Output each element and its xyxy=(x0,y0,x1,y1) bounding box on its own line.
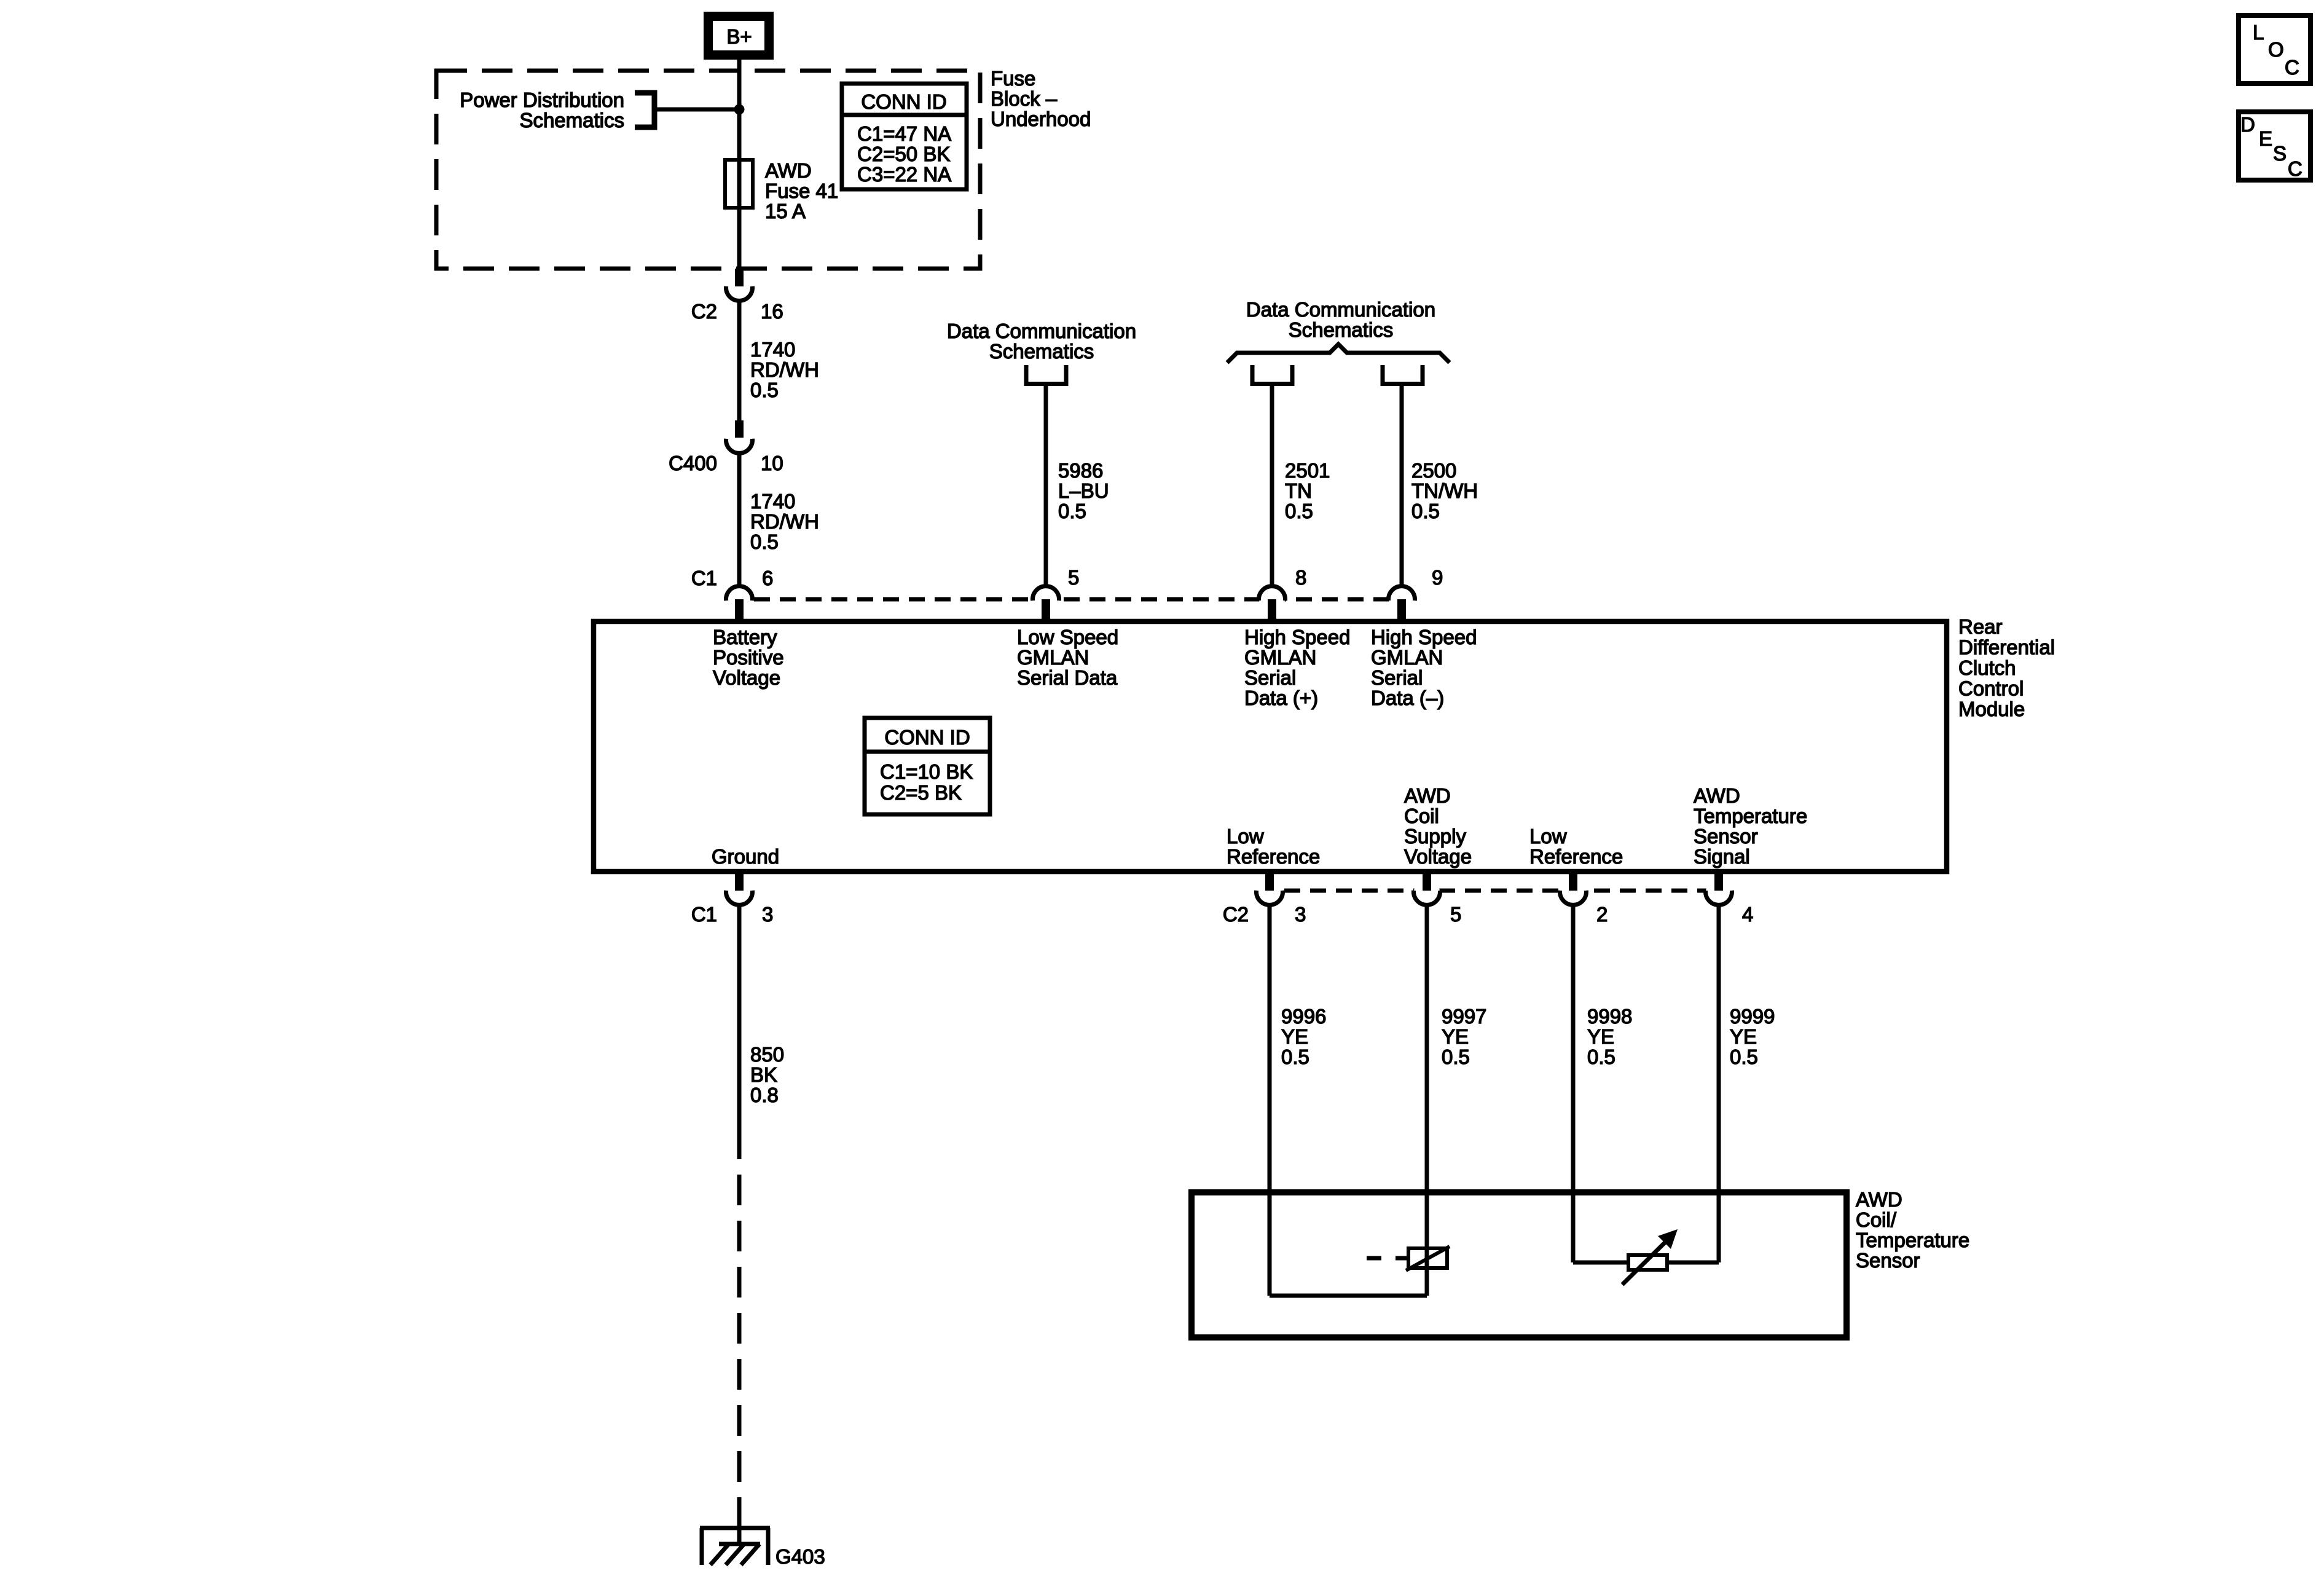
svg-text:CONN ID: CONN ID xyxy=(884,726,970,749)
wire 9999 YE 0.5 xyxy=(1719,904,1775,1262)
svg-text:High Speed: High Speed xyxy=(1371,626,1477,648)
AWD clutch coil (solenoid) xyxy=(1367,1246,1450,1270)
pin label: Low Speed GMLAN Serial Data xyxy=(1017,626,1118,689)
LOC page marker box xyxy=(2239,15,2310,84)
svg-text:BK: BK xyxy=(750,1063,777,1086)
svg-text:Fuse: Fuse xyxy=(991,67,1035,90)
svg-text:Schematics: Schematics xyxy=(989,340,1094,363)
wire 850 BK 0.8 to ground xyxy=(739,904,784,1544)
svg-text:Signal: Signal xyxy=(1694,845,1750,868)
svg-text:Sensor: Sensor xyxy=(1856,1249,1920,1272)
svg-text:C: C xyxy=(2285,56,2299,79)
pin label: High Speed GMLAN Serial Data (-) xyxy=(1371,626,1477,709)
wire coil return (9996 leg to coil) xyxy=(1270,1294,1427,1298)
svg-text:RD/WH: RD/WH xyxy=(750,510,819,533)
svg-text:B+: B+ xyxy=(726,25,752,48)
svg-text:9998: 9998 xyxy=(1587,1005,1632,1028)
svg-text:Rear: Rear xyxy=(1958,615,2003,638)
svg-text:Schematics: Schematics xyxy=(519,109,624,132)
svg-text:0.5: 0.5 xyxy=(1730,1045,1758,1068)
svg-text:8: 8 xyxy=(1295,566,1306,589)
brace over high speed GMLAN pair xyxy=(1227,344,1450,363)
svg-text:0.5: 0.5 xyxy=(1442,1045,1470,1068)
svg-text:C2=5 BK: C2=5 BK xyxy=(880,781,962,804)
DESC page marker box xyxy=(2239,112,2310,180)
svg-text:Sensor: Sensor xyxy=(1694,825,1758,848)
svg-text:AWD: AWD xyxy=(1856,1188,1902,1211)
wire 2501 TN 0.5 xyxy=(1272,386,1330,586)
svg-text:Fuse 41: Fuse 41 xyxy=(765,179,838,202)
svg-text:2500: 2500 xyxy=(1411,459,1456,482)
svg-text:Block –: Block – xyxy=(991,87,1058,110)
svg-text:C1=47 NA: C1=47 NA xyxy=(857,122,951,145)
svg-text:TN/WH: TN/WH xyxy=(1411,479,1478,502)
svg-text:Battery: Battery xyxy=(713,626,777,648)
svg-text:Ground: Ground xyxy=(712,845,779,868)
svg-text:10: 10 xyxy=(761,452,783,474)
svg-text:L–BU: L–BU xyxy=(1058,479,1109,502)
svg-text:16: 16 xyxy=(761,300,783,323)
wire 9996 YE 0.5 xyxy=(1270,904,1326,1296)
svg-text:D: D xyxy=(2240,113,2255,136)
svg-text:Data (+): Data (+) xyxy=(1244,687,1318,709)
pin label: Low Reference (C2-3) xyxy=(1227,825,1320,868)
label: AWD Fuse 41 15 A xyxy=(765,159,838,222)
svg-text:Differential: Differential xyxy=(1958,636,2055,659)
module pin C1-6 (battery positive voltage) xyxy=(691,567,774,623)
svg-text:5: 5 xyxy=(1450,903,1461,926)
in-line connector C2 pin 16 xyxy=(691,269,783,323)
svg-text:9: 9 xyxy=(1432,566,1443,589)
svg-text:C2=50 BK: C2=50 BK xyxy=(857,143,950,165)
svg-text:TN: TN xyxy=(1285,479,1312,502)
svg-text:9999: 9999 xyxy=(1730,1005,1775,1028)
svg-text:Module: Module xyxy=(1958,698,2025,720)
pin label: Battery Positive Voltage xyxy=(713,626,784,689)
svg-text:Supply: Supply xyxy=(1404,825,1466,848)
wire 1740 RD/WH 0.5 (C2-16 to C400-10) xyxy=(739,301,819,422)
label: Data Communication Schematics (high speed pair) xyxy=(1246,298,1435,341)
svg-text:AWD: AWD xyxy=(1404,784,1451,807)
svg-text:C1=10 BK: C1=10 BK xyxy=(880,760,973,783)
pin label: High Speed GMLAN Serial Data (+) xyxy=(1244,626,1350,709)
label: Fuse Block - Underhood xyxy=(991,67,1091,130)
svg-text:C1: C1 xyxy=(691,903,717,926)
module pin C2-2 (low reference) xyxy=(1560,872,1608,926)
svg-text:Clutch: Clutch xyxy=(1958,656,2016,679)
off-page connector (high speed GMLAN -) xyxy=(1383,365,1423,384)
module pin C2-3 (low reference) xyxy=(1223,872,1306,926)
svg-text:Power Distribution: Power Distribution xyxy=(460,89,624,111)
svg-text:Serial: Serial xyxy=(1244,666,1296,689)
junction node on B+ feed xyxy=(734,104,745,115)
bracket for Power Distribution Schematics reference xyxy=(635,93,654,127)
off-page connector (low speed GMLAN) xyxy=(1026,365,1066,384)
svg-text:Reference: Reference xyxy=(1227,845,1320,868)
wire 1740 RD/WH 0.5 (C400-10 to module C1-6) xyxy=(739,452,819,586)
battery positive node B+ xyxy=(704,12,774,60)
svg-text:5: 5 xyxy=(1068,566,1079,589)
fuse block underhood (dashed boundary) xyxy=(436,71,980,269)
svg-text:C3=22 NA: C3=22 NA xyxy=(857,163,951,186)
svg-text:YE: YE xyxy=(1587,1025,1614,1048)
wire 5986 L-BU 0.5 xyxy=(1046,386,1109,586)
module pin C2-5 (AWD coil supply voltage) xyxy=(1414,872,1462,926)
svg-text:850: 850 xyxy=(750,1043,784,1066)
label: AWD Coil/ Temperature Sensor xyxy=(1856,1188,1969,1272)
svg-text:GMLAN: GMLAN xyxy=(1244,646,1316,669)
svg-text:O: O xyxy=(2268,38,2284,61)
svg-text:AWD: AWD xyxy=(765,159,812,182)
dashed connector line C1 pins 6-5-8-9 xyxy=(739,597,1402,602)
label: Power Distribution Schematics (off-page reference) xyxy=(460,89,624,132)
svg-text:0.5: 0.5 xyxy=(1587,1045,1615,1068)
AWD temperature sensor thermistor (variable resistor) xyxy=(1622,1229,1678,1285)
svg-text:9996: 9996 xyxy=(1281,1005,1326,1028)
svg-text:Underhood: Underhood xyxy=(991,108,1091,130)
svg-text:C1: C1 xyxy=(691,567,717,589)
svg-text:AWD: AWD xyxy=(1694,784,1740,807)
svg-text:G403: G403 xyxy=(775,1545,825,1568)
svg-text:9997: 9997 xyxy=(1442,1005,1486,1028)
svg-text:Low Speed: Low Speed xyxy=(1017,626,1118,648)
svg-text:RD/WH: RD/WH xyxy=(750,358,819,381)
svg-text:GMLAN: GMLAN xyxy=(1371,646,1443,669)
svg-text:High Speed: High Speed xyxy=(1244,626,1350,648)
wire bracket to junction xyxy=(654,108,739,112)
svg-text:0.5: 0.5 xyxy=(750,379,779,401)
svg-text:C: C xyxy=(2288,157,2302,180)
svg-text:Voltage: Voltage xyxy=(713,666,780,689)
svg-text:Data Communication: Data Communication xyxy=(1246,298,1435,321)
svg-text:Reference: Reference xyxy=(1529,845,1623,868)
pin label: Ground xyxy=(712,845,779,868)
svg-text:S: S xyxy=(2273,142,2287,165)
off-page connector (high speed GMLAN +) xyxy=(1252,365,1292,384)
svg-text:C2: C2 xyxy=(1223,903,1249,926)
svg-text:1740: 1740 xyxy=(750,490,795,513)
svg-text:Voltage: Voltage xyxy=(1404,845,1472,868)
module pin 5 (low speed GMLAN) xyxy=(1033,566,1080,623)
fuse AWD Fuse 41 15 A xyxy=(725,160,753,208)
in-line connector C400 pin 10 xyxy=(669,420,783,474)
svg-text:5986: 5986 xyxy=(1058,459,1103,482)
module pin 8 (high speed GMLAN +) xyxy=(1259,566,1307,623)
svg-text:Low: Low xyxy=(1529,825,1567,848)
AWD coil / temperature sensor box xyxy=(1191,1192,1847,1337)
wire 9998 YE 0.5 xyxy=(1573,904,1632,1262)
wire 9997 YE 0.5 xyxy=(1427,904,1486,1296)
svg-text:3: 3 xyxy=(1295,903,1306,926)
svg-text:Positive: Positive xyxy=(713,646,784,669)
module pin C2-4 (AWD temperature sensor signal) xyxy=(1706,872,1754,926)
wire 2500 TN/WH 0.5 xyxy=(1402,386,1478,586)
svg-text:Control: Control xyxy=(1958,677,2024,700)
svg-text:Low: Low xyxy=(1227,825,1264,848)
svg-text:0.5: 0.5 xyxy=(1411,500,1440,522)
pin label: AWD Temperature Sensor Signal xyxy=(1694,784,1807,868)
svg-text:2: 2 xyxy=(1596,903,1608,926)
svg-text:0.8: 0.8 xyxy=(750,1084,779,1106)
module pin C1-3 (ground) xyxy=(691,872,774,926)
wire B+ to fuse, through junction and fuse to connector C2 xyxy=(737,57,742,270)
label: Rear Differential Clutch Control Module xyxy=(1958,615,2055,720)
module pin 9 (high speed GMLAN -) xyxy=(1389,566,1443,623)
svg-text:3: 3 xyxy=(762,903,773,926)
svg-text:Data (–): Data (–) xyxy=(1371,687,1444,709)
svg-text:Schematics: Schematics xyxy=(1289,318,1394,341)
svg-text:YE: YE xyxy=(1281,1025,1308,1048)
svg-text:YE: YE xyxy=(1730,1025,1757,1048)
label: Data Communication Schematics (low speed) xyxy=(947,320,1136,363)
svg-text:C2: C2 xyxy=(691,300,717,323)
svg-text:Coil: Coil xyxy=(1404,805,1439,827)
svg-text:2501: 2501 xyxy=(1285,459,1330,482)
svg-text:0.5: 0.5 xyxy=(750,530,779,553)
svg-text:Temperature: Temperature xyxy=(1694,805,1807,827)
svg-text:YE: YE xyxy=(1442,1025,1469,1048)
ground G403 (chassis ground symbol) xyxy=(700,1528,825,1568)
svg-text:E: E xyxy=(2259,127,2272,150)
svg-text:0.5: 0.5 xyxy=(1285,500,1313,522)
svg-text:0.5: 0.5 xyxy=(1281,1045,1309,1068)
svg-text:Data Communication: Data Communication xyxy=(947,320,1136,342)
svg-text:0.5: 0.5 xyxy=(1058,500,1086,522)
svg-text:15 A: 15 A xyxy=(765,200,806,222)
svg-text:4: 4 xyxy=(1742,903,1753,926)
svg-text:Serial: Serial xyxy=(1371,666,1423,689)
CONN ID table (fuse block): C1=47 NA C2=50 BK C3=22 NA xyxy=(842,84,967,189)
svg-text:L: L xyxy=(2253,21,2264,44)
svg-text:GMLAN: GMLAN xyxy=(1017,646,1089,669)
rear differential clutch control module U7 box xyxy=(594,621,1947,872)
svg-text:Serial Data: Serial Data xyxy=(1017,666,1118,689)
svg-text:Coil/: Coil/ xyxy=(1856,1208,1897,1231)
dashed connector line C2 pins 3-5-2-4 xyxy=(1270,889,1719,893)
svg-text:CONN ID: CONN ID xyxy=(861,90,946,113)
svg-text:6: 6 xyxy=(762,567,773,589)
svg-text:C400: C400 xyxy=(669,452,717,474)
svg-text:Temperature: Temperature xyxy=(1856,1229,1969,1251)
pin label: AWD Coil Supply Voltage xyxy=(1404,784,1472,868)
svg-text:1740: 1740 xyxy=(750,338,795,361)
CONN ID table (module): C1=10 BK C2=5 BK xyxy=(865,718,990,814)
pin label: Low Reference (C2-2) xyxy=(1529,825,1623,868)
wire thermistor links xyxy=(1573,1261,1719,1265)
